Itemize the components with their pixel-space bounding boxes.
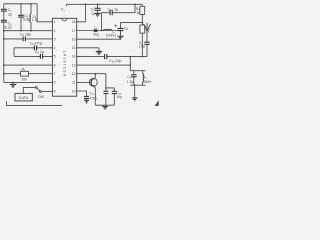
svg-text:1.5t: 1.5t (32, 18, 38, 22)
svg-text:DATA: DATA (19, 96, 29, 100)
svg-text:10p: 10p (116, 95, 122, 99)
svg-text:C4 18p: C4 18p (20, 33, 31, 38)
svg-text:100nH: 100nH (106, 33, 117, 37)
svg-text:1k: 1k (136, 11, 140, 15)
svg-text:18: 18 (72, 20, 76, 24)
svg-text:10k: 10k (21, 77, 27, 81)
svg-text:6: 6 (54, 63, 56, 67)
svg-text:1.5p: 1.5p (127, 80, 134, 84)
svg-text:C12 22p: C12 22p (109, 59, 122, 64)
svg-text:14: 14 (72, 55, 76, 59)
svg-text:15: 15 (72, 46, 76, 50)
svg-text:KS5151AT: KS5151AT (63, 49, 67, 76)
svg-text:8.2p: 8.2p (5, 26, 12, 30)
svg-text:DIS: DIS (38, 95, 44, 99)
svg-text:11: 11 (72, 81, 76, 85)
svg-text:42µ: 42µ (93, 33, 99, 37)
svg-text:13: 13 (72, 63, 76, 67)
svg-text:470p: 470p (89, 97, 97, 101)
svg-text:C10 1µ: C10 1µ (108, 7, 119, 12)
svg-text:1µ: 1µ (91, 12, 95, 16)
svg-text:33nH: 33nH (143, 80, 152, 84)
svg-text:1: 1 (54, 20, 56, 24)
svg-text:8: 8 (54, 81, 56, 85)
svg-text:6.8p: 6.8p (23, 18, 30, 22)
svg-text:10: 10 (72, 89, 76, 93)
svg-text:3p: 3p (8, 12, 12, 16)
svg-text:17: 17 (72, 29, 76, 33)
svg-text:16: 16 (72, 37, 76, 41)
svg-text:C6 1µ: C6 1µ (35, 50, 44, 55)
svg-text:1.8p: 1.8p (139, 45, 146, 49)
svg-text:C5 470p: C5 470p (30, 41, 43, 46)
svg-text:2: 2 (54, 29, 56, 33)
svg-text:5: 5 (54, 55, 56, 59)
svg-text:3: 3 (54, 37, 56, 41)
svg-text:9: 9 (54, 89, 56, 93)
svg-text:7: 7 (54, 72, 56, 76)
svg-text:12: 12 (72, 72, 76, 76)
svg-text:4: 4 (54, 46, 56, 50)
